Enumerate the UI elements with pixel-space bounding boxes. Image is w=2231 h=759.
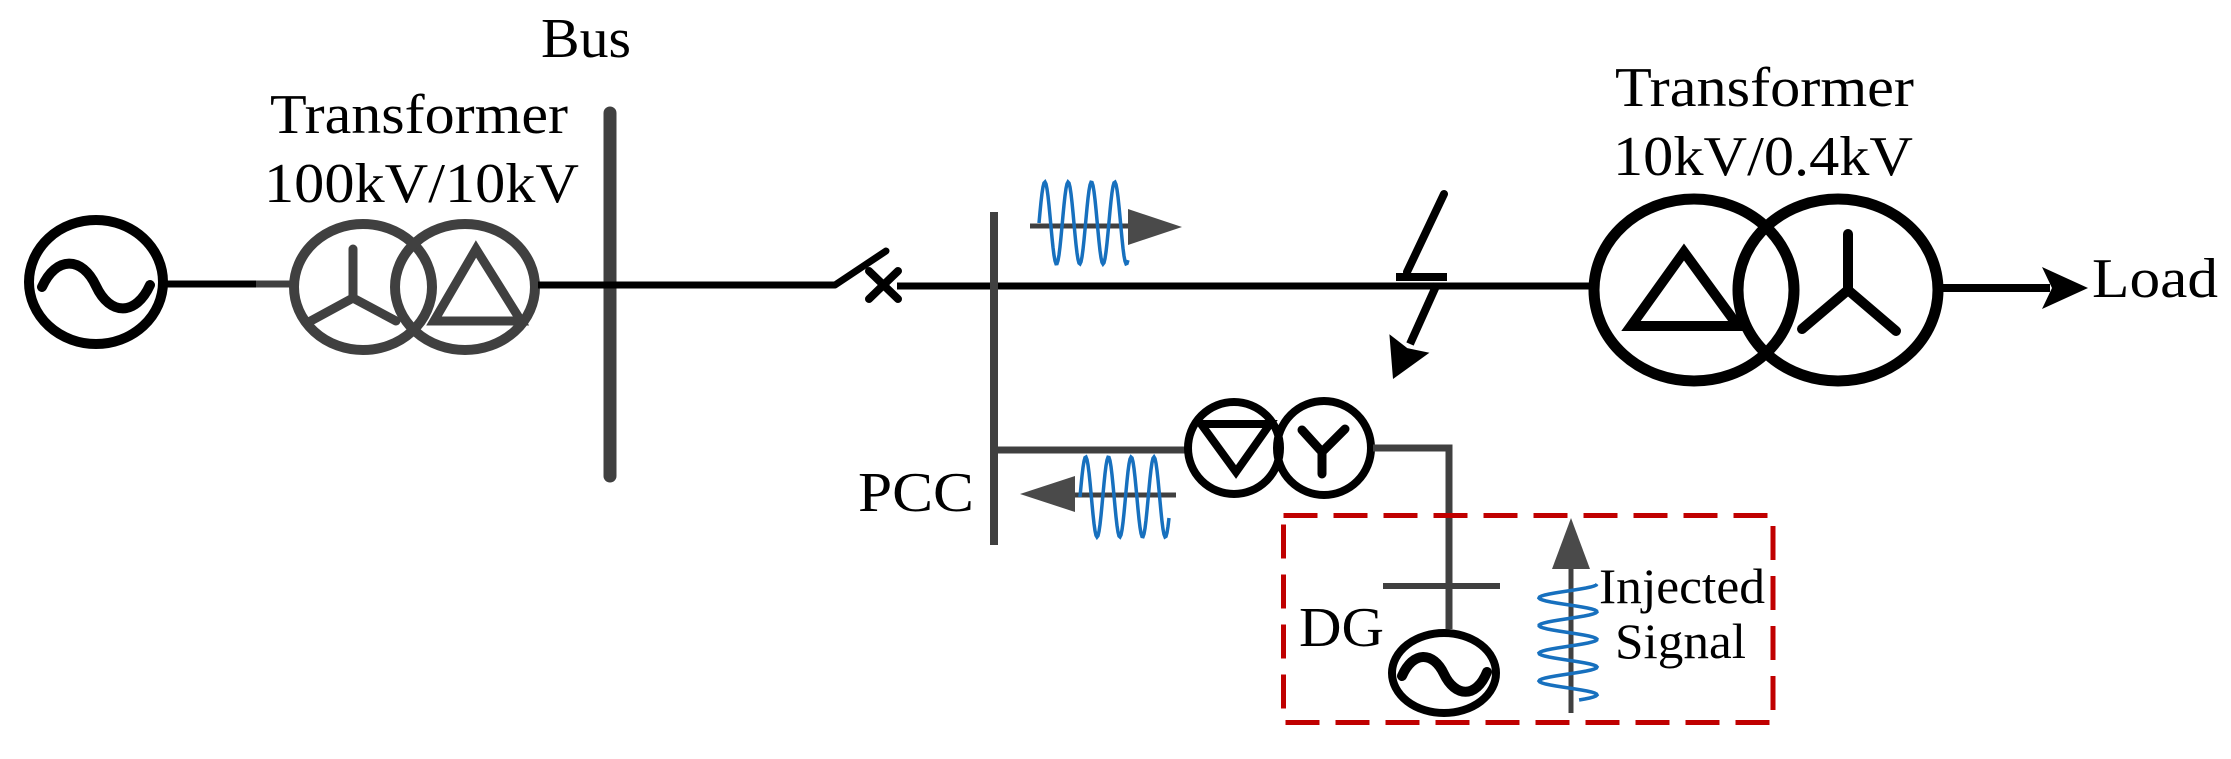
wire source to T1 (165, 281, 256, 288)
breaker tick (1383, 583, 1500, 589)
fault bolt upper stroke (1407, 194, 1444, 272)
wire switch to T2 (897, 283, 1591, 290)
source G1 (29, 220, 163, 344)
T3 inverted delta winding symbol (1201, 424, 1270, 472)
injected signal coil (1539, 584, 1597, 700)
fault bolt middle bar (1396, 273, 1447, 281)
wire T2 to load (1940, 284, 2050, 292)
switch X mark (869, 271, 898, 299)
svg-text:10kV/0.4kV: 10kV/0.4kV (1613, 126, 1913, 188)
harmonic flow sine left (1080, 457, 1169, 537)
load arrowhead (2042, 267, 2088, 309)
svg-text:Transformer: Transformer (1615, 57, 1914, 119)
wire gray stub to T1 (256, 281, 296, 288)
wire PCC to T3 (994, 447, 1186, 454)
svg-text:Signal: Signal (1615, 613, 1746, 669)
harmonic flow line left (1075, 493, 1176, 498)
fault bolt lower stroke (1410, 284, 1437, 344)
harmonic flow sine right (1039, 182, 1128, 264)
PCC bar (990, 212, 998, 545)
transformer T3 DG interface (1188, 401, 1371, 495)
transformer T1 100kV/10kV (294, 224, 535, 350)
svg-text:Load: Load (2092, 248, 2218, 310)
T2 delta winding symbol (1631, 252, 1738, 326)
svg-text:Bus: Bus (541, 8, 631, 70)
svg-text:100kV/10kV: 100kV/10kV (264, 153, 579, 215)
svg-text:Transformer: Transformer (270, 84, 568, 146)
switch blade (835, 251, 886, 285)
T1 wye winding symbol (307, 249, 396, 323)
svg-text:PCC: PCC (858, 462, 974, 524)
fault arrowhead (1389, 334, 1429, 379)
DG source (1392, 633, 1496, 713)
DG boundary box (1284, 516, 1774, 723)
injected signal arrow line (1569, 560, 1574, 713)
harmonic flow arrowhead left (1020, 476, 1075, 512)
svg-text:DG: DG (1299, 597, 1384, 659)
svg-text:Injected: Injected (1599, 558, 1765, 614)
transformer T2 10kV/0.4kV (1594, 199, 1938, 381)
T3 wye winding symbol (1302, 429, 1345, 474)
bus bar (604, 113, 617, 476)
harmonic flow line right (1030, 224, 1131, 229)
T2 wye winding symbol (1802, 234, 1896, 331)
injected signal arrowhead (1552, 518, 1590, 569)
harmonic flow arrowhead right (1128, 209, 1182, 245)
wire T1 to switch (538, 282, 835, 289)
wire T3 to DG (1373, 448, 1449, 629)
T1 delta winding symbol (434, 249, 521, 321)
